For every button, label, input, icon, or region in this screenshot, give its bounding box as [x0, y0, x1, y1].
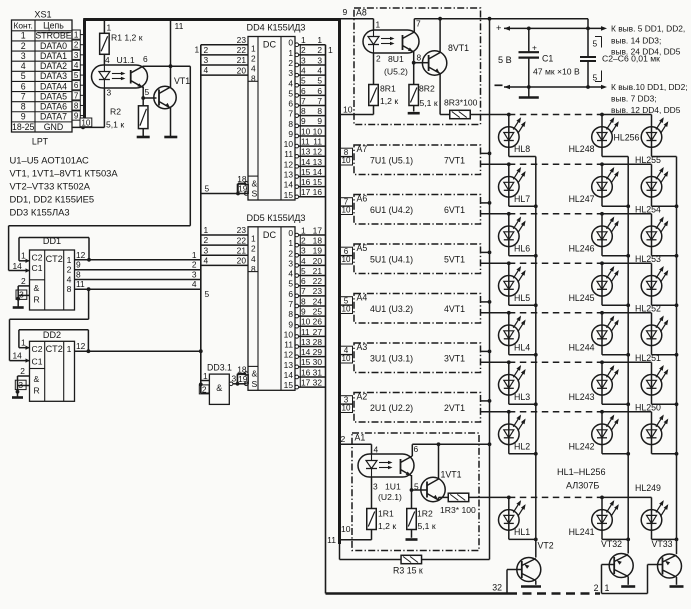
svg-text:21: 21: [237, 245, 247, 255]
svg-text:2: 2: [74, 41, 79, 50]
svg-text:HL245: HL245: [569, 293, 595, 303]
svg-text:DD1, DD2 К155ИЕ5: DD1, DD2 К155ИЕ5: [10, 194, 95, 205]
svg-text:23: 23: [237, 35, 247, 45]
svg-text:5: 5: [593, 39, 598, 49]
svg-text:Конт.: Конт.: [13, 21, 32, 31]
svg-text:HL251: HL251: [635, 353, 661, 363]
svg-text:6: 6: [143, 54, 148, 64]
svg-text:1: 1: [204, 225, 209, 235]
svg-text:R1 1,2 к: R1 1,2 к: [111, 33, 143, 43]
svg-text:11: 11: [284, 340, 293, 350]
svg-text:10: 10: [341, 255, 351, 264]
svg-text:13: 13: [313, 157, 323, 167]
svg-text:7: 7: [301, 286, 306, 296]
svg-text:HL244: HL244: [569, 342, 595, 352]
svg-text:8: 8: [21, 102, 26, 112]
svg-text:CT2: CT2: [46, 344, 63, 354]
svg-text:47 мк ×10 В: 47 мк ×10 В: [533, 67, 580, 77]
svg-text:HL248: HL248: [569, 144, 595, 154]
svg-text:21: 21: [237, 55, 247, 65]
svg-text:S: S: [252, 189, 258, 199]
svg-text:32: 32: [313, 378, 323, 388]
svg-text:1: 1: [251, 43, 256, 53]
svg-text:4: 4: [204, 65, 209, 75]
svg-text:18-25: 18-25: [12, 122, 35, 132]
svg-text:12: 12: [284, 159, 294, 169]
svg-text:4: 4: [301, 256, 306, 266]
svg-text:HL250: HL250: [635, 402, 661, 412]
svg-text:7: 7: [288, 109, 293, 119]
svg-text:1: 1: [67, 344, 72, 354]
svg-text:7U1 (U5.1): 7U1 (U5.1): [370, 156, 413, 166]
svg-text:22: 22: [237, 45, 247, 55]
svg-text:4: 4: [251, 254, 256, 264]
svg-text:1R2: 1R2: [417, 509, 433, 519]
svg-text:10: 10: [341, 156, 351, 165]
svg-text:3: 3: [288, 258, 293, 268]
svg-text:10: 10: [313, 126, 323, 136]
svg-text:DD4 К155ИД3: DD4 К155ИД3: [247, 23, 306, 33]
svg-text:18: 18: [313, 236, 323, 246]
svg-text:10: 10: [301, 126, 311, 136]
svg-text:8R3*100: 8R3*100: [444, 98, 478, 108]
svg-text:HL1: HL1: [514, 527, 530, 537]
svg-text:C1: C1: [542, 54, 553, 64]
svg-text:3: 3: [192, 270, 197, 280]
svg-text:A3: A3: [357, 342, 368, 352]
svg-text:1R3* 100: 1R3* 100: [440, 505, 476, 515]
svg-text:15: 15: [284, 190, 294, 200]
svg-text:DC: DC: [263, 230, 277, 240]
svg-text:HL242: HL242: [569, 441, 595, 451]
svg-text:12: 12: [284, 350, 294, 360]
svg-text:14: 14: [13, 261, 23, 271]
svg-text:9: 9: [301, 116, 306, 126]
svg-text:11: 11: [284, 149, 293, 159]
svg-text:6: 6: [21, 81, 26, 91]
svg-text:10: 10: [81, 118, 91, 127]
svg-text:17: 17: [301, 378, 311, 388]
svg-text:8: 8: [301, 296, 306, 306]
svg-text:23: 23: [237, 225, 247, 235]
svg-text:8: 8: [251, 264, 256, 274]
svg-text:2: 2: [341, 434, 346, 444]
svg-text:2: 2: [251, 53, 256, 63]
svg-text:5U1 (U4.1): 5U1 (U4.1): [370, 255, 413, 265]
svg-text:STROBE: STROBE: [35, 31, 71, 41]
svg-text:R: R: [34, 295, 40, 305]
svg-text:5,1 к: 5,1 к: [420, 98, 438, 108]
svg-text:2: 2: [251, 244, 256, 254]
svg-text:2: 2: [21, 41, 26, 51]
svg-text:20: 20: [313, 256, 323, 266]
svg-text:9: 9: [301, 307, 306, 317]
svg-text:8: 8: [288, 309, 293, 319]
svg-text:2: 2: [204, 45, 209, 55]
svg-text:14: 14: [284, 370, 294, 380]
svg-text:К выв.10 DD1, DD2;: К выв.10 DD1, DD2;: [611, 82, 688, 92]
svg-text:A7: A7: [357, 144, 368, 154]
svg-text:10: 10: [284, 139, 294, 149]
svg-text:VT33: VT33: [652, 539, 673, 549]
svg-text:6: 6: [317, 86, 322, 96]
svg-text:5: 5: [301, 76, 306, 86]
svg-text:14: 14: [13, 351, 23, 361]
svg-text:9: 9: [343, 7, 348, 17]
svg-text:A1: A1: [355, 433, 366, 443]
svg-text:22: 22: [313, 276, 323, 286]
svg-text:11: 11: [313, 137, 322, 147]
svg-text:HL254: HL254: [635, 204, 661, 214]
svg-text:выв. 7 DD3;: выв. 7 DD3;: [611, 94, 657, 104]
svg-text:5: 5: [288, 279, 293, 289]
svg-text:HL243: HL243: [569, 392, 595, 402]
svg-text:3: 3: [317, 55, 322, 65]
svg-text:16: 16: [301, 177, 311, 187]
svg-text:HL255: HL255: [635, 155, 661, 165]
svg-text:HL4: HL4: [514, 342, 530, 352]
svg-text:К выв. 5 DD1, DD2,: К выв. 5 DD1, DD2,: [611, 24, 685, 34]
svg-text:24: 24: [313, 296, 323, 306]
svg-text:DD2: DD2: [43, 330, 61, 340]
svg-text:HL253: HL253: [635, 254, 661, 264]
svg-text:10: 10: [301, 317, 311, 327]
svg-text:U1.1: U1.1: [117, 55, 135, 65]
svg-text:4: 4: [374, 445, 379, 455]
svg-text:10: 10: [341, 524, 351, 534]
svg-text:DATA7: DATA7: [40, 112, 67, 122]
svg-text:2: 2: [192, 260, 197, 270]
svg-text:DATA1: DATA1: [40, 51, 67, 61]
svg-text:(U5.2): (U5.2): [384, 67, 408, 77]
svg-text:2: 2: [317, 45, 322, 55]
svg-text:28: 28: [313, 337, 323, 347]
svg-text:5: 5: [205, 289, 210, 299]
svg-text:1: 1: [251, 234, 256, 244]
svg-text:1: 1: [21, 251, 26, 261]
svg-text:1: 1: [301, 225, 306, 235]
svg-text:1: 1: [203, 371, 208, 381]
svg-text:GND: GND: [44, 122, 64, 132]
svg-text:4: 4: [288, 269, 293, 279]
svg-text:2U1 (U2.2): 2U1 (U2.2): [370, 403, 413, 413]
svg-text:A4: A4: [357, 293, 368, 303]
svg-text:A6: A6: [357, 194, 368, 204]
svg-text:7: 7: [301, 96, 306, 106]
svg-text:8U1: 8U1: [388, 54, 404, 64]
svg-text:6: 6: [288, 99, 293, 109]
svg-text:5: 5: [74, 71, 79, 80]
svg-text:DD3.1: DD3.1: [207, 363, 232, 373]
svg-text:21: 21: [313, 266, 323, 276]
svg-text:+: +: [532, 43, 537, 53]
svg-text:2: 2: [594, 583, 599, 593]
svg-text:22: 22: [237, 235, 247, 245]
svg-text:2: 2: [21, 276, 26, 286]
svg-text:31: 31: [313, 367, 323, 377]
svg-text:DATA5: DATA5: [40, 91, 67, 101]
svg-text:6: 6: [414, 444, 419, 454]
svg-text:7: 7: [317, 96, 322, 106]
svg-text:0: 0: [288, 228, 293, 238]
svg-text:1: 1: [328, 45, 333, 55]
svg-text:&: &: [34, 374, 40, 384]
svg-text:0: 0: [288, 38, 293, 48]
svg-text:5: 5: [288, 88, 293, 98]
svg-text:12: 12: [313, 147, 323, 157]
svg-text:19: 19: [238, 374, 248, 384]
svg-text:6: 6: [301, 86, 306, 96]
svg-text:A8: A8: [356, 8, 367, 18]
svg-text:R3 15 к: R3 15 к: [393, 566, 423, 576]
svg-text:6U1 (U4.2): 6U1 (U4.2): [370, 205, 413, 215]
svg-text:C1: C1: [32, 263, 43, 273]
svg-text:27: 27: [313, 327, 323, 337]
svg-text:10: 10: [341, 354, 351, 363]
svg-text:3: 3: [21, 51, 26, 61]
svg-text:HL241: HL241: [569, 527, 595, 537]
svg-text:1R1: 1R1: [378, 509, 394, 519]
svg-text:19: 19: [238, 184, 248, 194]
svg-text:16: 16: [301, 367, 311, 377]
svg-text:16: 16: [313, 187, 323, 197]
svg-text:13: 13: [284, 170, 294, 180]
svg-text:HL247: HL247: [569, 194, 595, 204]
svg-text:R: R: [34, 386, 40, 396]
svg-text:Цепь: Цепь: [43, 21, 64, 31]
svg-text:3: 3: [204, 245, 209, 255]
svg-text:1: 1: [288, 238, 293, 248]
svg-text:5: 5: [205, 183, 210, 193]
svg-text:23: 23: [313, 286, 323, 296]
svg-text:4: 4: [317, 66, 322, 76]
svg-text:1: 1: [107, 23, 112, 33]
svg-text:10: 10: [341, 206, 351, 215]
svg-text:8: 8: [301, 106, 306, 116]
svg-text:9: 9: [76, 260, 81, 270]
svg-text:4: 4: [21, 61, 26, 71]
svg-text:8: 8: [67, 284, 72, 294]
svg-text:15: 15: [284, 380, 294, 390]
svg-text:6: 6: [301, 276, 306, 286]
svg-text:9: 9: [288, 319, 293, 329]
svg-text:5VT1: 5VT1: [444, 255, 465, 265]
svg-text:3: 3: [232, 374, 237, 384]
svg-text:2: 2: [202, 384, 207, 394]
svg-text:3: 3: [288, 68, 293, 78]
svg-text:13: 13: [284, 360, 294, 370]
svg-text:+: +: [496, 22, 502, 33]
svg-text:2: 2: [67, 265, 72, 275]
svg-text:4: 4: [67, 274, 72, 284]
svg-text:5,1 к: 5,1 к: [106, 120, 124, 130]
svg-text:HL256: HL256: [614, 133, 640, 143]
svg-text:11: 11: [327, 535, 336, 545]
svg-text:АЛ307Б: АЛ307Б: [566, 481, 599, 491]
svg-text:A2: A2: [357, 392, 368, 402]
svg-text:5: 5: [301, 266, 306, 276]
svg-text:8R1: 8R1: [380, 84, 396, 94]
svg-text:2: 2: [20, 366, 25, 376]
svg-text:5: 5: [21, 71, 26, 81]
svg-text:2VT1: 2VT1: [444, 403, 465, 413]
svg-text:8: 8: [251, 74, 256, 84]
svg-text:3: 3: [107, 88, 112, 98]
svg-text:4U1 (U3.2): 4U1 (U3.2): [370, 304, 413, 314]
svg-text:выв. 24 DD4, DD5: выв. 24 DD4, DD5: [611, 47, 681, 57]
svg-text:25: 25: [313, 307, 323, 317]
svg-text:1: 1: [301, 35, 306, 45]
svg-text:1,2 к: 1,2 к: [380, 96, 398, 106]
svg-text:1: 1: [317, 35, 322, 45]
svg-text:5 В: 5 В: [498, 55, 512, 65]
svg-text:5: 5: [145, 87, 150, 97]
svg-text:8: 8: [76, 270, 81, 280]
svg-text:10: 10: [284, 329, 294, 339]
svg-text:DATA4: DATA4: [40, 81, 67, 91]
svg-text:3: 3: [74, 51, 79, 60]
svg-text:HL7: HL7: [514, 194, 530, 204]
svg-text:4VT1: 4VT1: [444, 304, 465, 314]
svg-text:15: 15: [301, 357, 311, 367]
svg-text:7: 7: [21, 91, 26, 101]
svg-text:9: 9: [74, 112, 79, 121]
svg-text:15: 15: [301, 167, 311, 177]
svg-text:14: 14: [301, 157, 311, 167]
svg-text:3U1 (U3.1): 3U1 (U3.1): [370, 354, 413, 364]
svg-text:3VT1: 3VT1: [444, 354, 465, 364]
svg-text:(U2.1): (U2.1): [378, 492, 402, 502]
svg-text:18: 18: [237, 174, 247, 184]
svg-text:20: 20: [237, 256, 247, 266]
svg-text:VT1, 1VT1–8VT1 КТ503А: VT1, 1VT1–8VT1 КТ503А: [10, 168, 119, 179]
svg-text:3: 3: [301, 55, 306, 65]
svg-text:C1: C1: [32, 356, 43, 366]
svg-text:HL249: HL249: [635, 483, 661, 493]
svg-text:6VT1: 6VT1: [444, 205, 465, 215]
svg-text:1: 1: [195, 45, 200, 55]
svg-text:HL3: HL3: [514, 392, 530, 402]
svg-text:4: 4: [204, 255, 209, 265]
svg-text:7VT1: 7VT1: [444, 156, 465, 166]
svg-text:1: 1: [192, 250, 197, 260]
svg-text:DATA0: DATA0: [40, 41, 67, 51]
svg-text:8: 8: [417, 53, 422, 63]
svg-text:3: 3: [204, 55, 209, 65]
svg-text:1: 1: [376, 20, 381, 30]
svg-text:17: 17: [313, 225, 323, 235]
svg-text:1: 1: [21, 31, 26, 41]
svg-text:VT32: VT32: [601, 539, 622, 549]
svg-text:DATA6: DATA6: [40, 102, 67, 112]
svg-text:4: 4: [288, 78, 293, 88]
svg-text:HL246: HL246: [569, 243, 595, 253]
svg-text:C2: C2: [32, 253, 43, 263]
svg-text:&: &: [216, 383, 222, 393]
svg-text:CT2: CT2: [46, 254, 63, 264]
svg-text:1: 1: [74, 31, 79, 40]
svg-text:6: 6: [288, 289, 293, 299]
svg-text:выв. 14 DD3;: выв. 14 DD3;: [611, 36, 661, 46]
svg-text:HL8: HL8: [514, 144, 530, 154]
svg-text:17: 17: [301, 187, 311, 197]
svg-text:A5: A5: [357, 243, 368, 253]
svg-text:14: 14: [284, 180, 294, 190]
svg-text:10: 10: [343, 105, 353, 115]
svg-text:VT2–VT33 КТ502А: VT2–VT33 КТ502А: [10, 181, 91, 192]
svg-text:7: 7: [288, 299, 293, 309]
svg-text:9: 9: [288, 129, 293, 139]
svg-text:1: 1: [288, 48, 293, 58]
svg-text:R2: R2: [110, 107, 121, 117]
svg-text:HL1–HL256: HL1–HL256: [557, 467, 606, 477]
svg-text:9: 9: [21, 112, 26, 122]
svg-text:HL252: HL252: [635, 303, 661, 313]
svg-text:13: 13: [301, 337, 311, 347]
svg-text:C2: C2: [32, 344, 43, 354]
svg-text:HL2: HL2: [514, 441, 530, 451]
svg-text:2: 2: [301, 236, 306, 246]
svg-text:11: 11: [301, 327, 310, 337]
svg-text:2: 2: [204, 235, 209, 245]
svg-text:LPT: LPT: [32, 137, 49, 147]
svg-text:8: 8: [288, 119, 293, 129]
svg-text:1: 1: [21, 338, 26, 348]
svg-text:3: 3: [301, 246, 306, 256]
svg-text:DD3 К155ЛА3: DD3 К155ЛА3: [10, 207, 70, 218]
svg-text:5: 5: [317, 76, 322, 86]
svg-text:DATA3: DATA3: [40, 71, 67, 81]
svg-text:12: 12: [76, 341, 86, 351]
svg-text:4: 4: [74, 61, 79, 70]
svg-text:выв. 12 DD4, DD5: выв. 12 DD4, DD5: [611, 105, 681, 115]
svg-text:&: &: [252, 178, 258, 188]
svg-text:4: 4: [105, 55, 110, 65]
svg-text:1U1: 1U1: [385, 482, 401, 492]
svg-text:11: 11: [301, 137, 310, 147]
svg-text:2: 2: [288, 58, 293, 68]
svg-text:20: 20: [237, 65, 247, 75]
svg-text:7: 7: [74, 91, 79, 100]
svg-text:4: 4: [251, 64, 256, 74]
svg-text:3: 3: [18, 380, 23, 390]
svg-text:11: 11: [76, 279, 85, 289]
svg-text:4: 4: [192, 279, 197, 289]
svg-text:32: 32: [492, 583, 502, 593]
svg-text:DC: DC: [263, 40, 277, 50]
svg-text:VT1: VT1: [174, 76, 190, 86]
svg-text:HL5: HL5: [514, 293, 530, 303]
svg-text:7: 7: [416, 19, 421, 29]
svg-text:26: 26: [313, 317, 323, 327]
svg-text:DD5 К155ИД3: DD5 К155ИД3: [247, 213, 306, 223]
svg-text:30: 30: [313, 357, 323, 367]
svg-text:4: 4: [301, 66, 306, 76]
svg-text:DATA2: DATA2: [40, 61, 67, 71]
svg-text:10: 10: [341, 305, 351, 314]
svg-text:U1–U5 АОТ101АС: U1–U5 АОТ101АС: [10, 155, 90, 166]
svg-text:1: 1: [605, 583, 610, 593]
svg-text:S: S: [252, 379, 258, 389]
svg-text:1: 1: [67, 255, 72, 265]
svg-text:&: &: [34, 283, 40, 293]
svg-text:8R2: 8R2: [419, 84, 435, 94]
svg-text:19: 19: [313, 246, 323, 256]
svg-text:12: 12: [76, 250, 86, 260]
svg-text:2: 2: [376, 54, 381, 64]
svg-text:6: 6: [74, 81, 79, 90]
svg-text:18: 18: [237, 364, 247, 374]
